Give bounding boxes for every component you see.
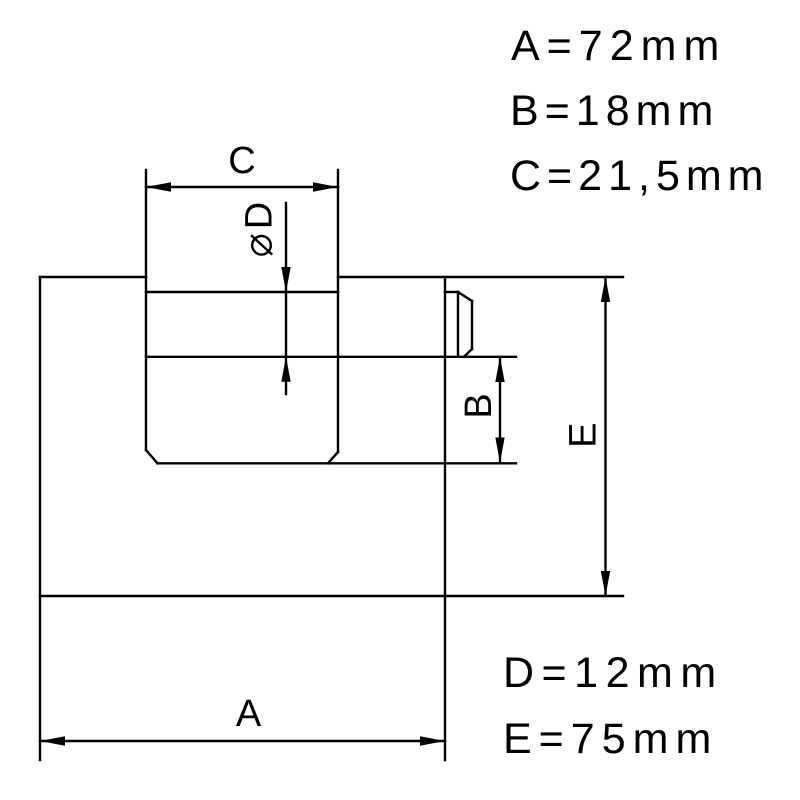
- dimension E up arrowhead: [601, 277, 610, 302]
- dimension D up arrowhead: [281, 357, 290, 382]
- svg-text:D=12mm: D=12mm: [503, 649, 724, 697]
- padlock body top edge left segment: [40, 276, 146, 278]
- dimension D leader line: [285, 203, 287, 394]
- svg-text:B: B: [458, 393, 500, 418]
- latch tab outer edge: [471, 301, 473, 349]
- svg-text:A=72mm: A=72mm: [511, 22, 726, 70]
- shackle-body lower intersection line / B extension line: [146, 356, 516, 358]
- dimension E down arrowhead: [601, 571, 610, 596]
- shackle left bottom chamfer: [146, 450, 158, 463]
- latch tab bottom chamfer: [464, 349, 472, 357]
- shackle right bottom chamfer: [328, 452, 338, 463]
- dimension C left arrowhead: [146, 182, 171, 191]
- dimension B line: [499, 357, 501, 463]
- padlock body left edge / A extension line: [39, 277, 41, 760]
- shackle right edge / C extension line: [337, 170, 339, 452]
- dimension A right arrowhead: [420, 736, 445, 745]
- padlock body right edge / A extension line: [444, 277, 446, 760]
- svg-text:E: E: [563, 423, 605, 448]
- latch tab top chamfer: [458, 292, 472, 301]
- dimension A left arrowhead: [40, 736, 65, 745]
- shackle-body top intersection line: [146, 291, 338, 293]
- dimension B down arrowhead: [495, 438, 504, 463]
- svg-text:D: D: [239, 202, 281, 229]
- svg-text:A: A: [236, 693, 262, 735]
- diameter symbol slash of D label: [252, 236, 271, 254]
- shackle bottom edge / B extension line: [158, 462, 517, 464]
- svg-text:E=75mm: E=75mm: [503, 715, 718, 763]
- latch tab inner edge: [457, 292, 459, 357]
- dimension D down arrowhead: [281, 267, 290, 292]
- dimension E line: [604, 277, 606, 596]
- padlock body top edge right segment / E extension line: [338, 276, 623, 278]
- dimension C line: [146, 186, 338, 188]
- latch tab top edge: [445, 291, 458, 293]
- svg-text:B=18mm: B=18mm: [510, 87, 719, 135]
- dimension C right arrowhead: [313, 182, 338, 191]
- dimension A line: [40, 740, 445, 742]
- padlock body bottom edge / E extension line: [40, 595, 623, 597]
- svg-text:C=21,5mm: C=21,5mm: [510, 152, 770, 200]
- svg-text:C: C: [228, 140, 255, 182]
- shackle left edge / C extension line: [145, 170, 147, 450]
- dimension B up arrowhead: [495, 357, 504, 382]
- diameter symbol circle of D label: [252, 236, 271, 255]
